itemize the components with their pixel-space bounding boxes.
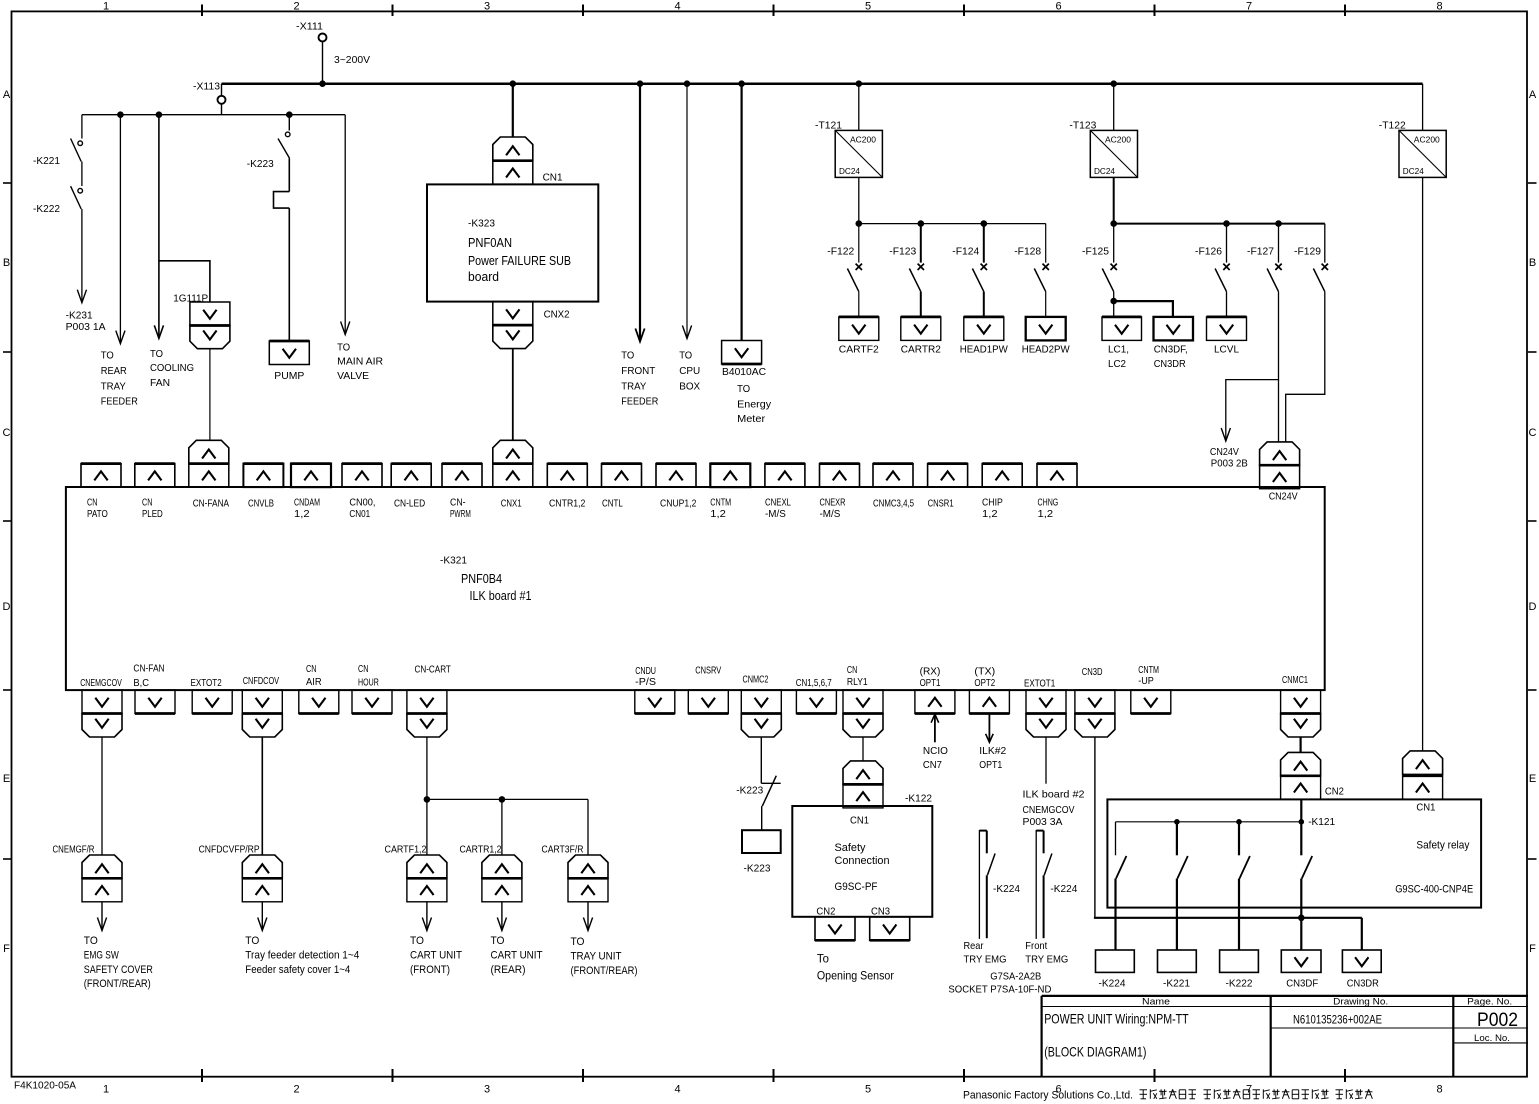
svg-text:-F129: -F129 bbox=[1294, 246, 1321, 258]
svg-text:POWER UNIT Wiring:NPM-TT: POWER UNIT Wiring:NPM-TT bbox=[1044, 1012, 1189, 1027]
svg-text:CN: CN bbox=[358, 663, 368, 675]
arrow TO CART UNIT REAR bbox=[491, 902, 543, 976]
svg-text:D: D bbox=[1529, 601, 1537, 613]
box -K221 bbox=[1158, 950, 1197, 990]
connector CART3F/R bbox=[542, 844, 609, 902]
svg-text:CARTF1,2: CARTF1,2 bbox=[385, 844, 427, 856]
svg-text:1,2: 1,2 bbox=[294, 508, 310, 520]
svg-text:CN01: CN01 bbox=[349, 508, 370, 520]
svg-text:CNEMGF/R: CNEMGF/R bbox=[53, 844, 95, 856]
svg-text:HEAD2PW: HEAD2PW bbox=[1022, 344, 1070, 356]
connector CN3D bbox=[1075, 666, 1115, 737]
wire CNEMGCOV down bbox=[101, 737, 103, 855]
svg-text:EXTOT1: EXTOT1 bbox=[1024, 678, 1055, 690]
svg-text:CNEMGCOV: CNEMGCOV bbox=[1023, 804, 1075, 816]
svg-text:-K223: -K223 bbox=[247, 158, 274, 170]
connector CN3 on K122 bbox=[870, 917, 910, 941]
wire F125 junction to LC1 bbox=[1110, 292, 1117, 317]
svg-text:Front: Front bbox=[1025, 940, 1047, 952]
connector CNTM 1,2 bbox=[710, 464, 750, 521]
connector CN- PWRM bbox=[442, 464, 482, 521]
connector LC1,LC2 bbox=[1102, 317, 1142, 370]
svg-text:NCIO: NCIO bbox=[923, 745, 948, 757]
wire X111 to bus bbox=[322, 42, 324, 84]
wire F123 to CARTR2 bbox=[920, 292, 922, 317]
connector CN1,5,6,7 bbox=[796, 677, 837, 714]
svg-text:(BLOCK DIAGRAM1): (BLOCK DIAGRAM1) bbox=[1044, 1045, 1146, 1060]
svg-text:-K121: -K121 bbox=[1308, 816, 1335, 828]
svg-text:(TX): (TX) bbox=[974, 666, 995, 678]
connector CNMC3,4,5 bbox=[873, 464, 914, 510]
wire TO FRONT TRAY FEEDER bbox=[621, 84, 658, 408]
svg-text:PNF0AN: PNF0AN bbox=[468, 235, 512, 250]
svg-text:Feeder safety cover 1~4: Feeder safety cover 1~4 bbox=[245, 964, 350, 976]
wire CNFDCOV down bbox=[261, 737, 263, 855]
svg-text:2: 2 bbox=[293, 1084, 299, 1096]
arrow TO Tray feeder detection bbox=[245, 902, 359, 976]
connector CARTF1,2 bbox=[385, 844, 447, 902]
connector EXTOT1 bbox=[1024, 678, 1066, 738]
contact K121 pole2 bbox=[1177, 822, 1188, 950]
wire branch bus bbox=[82, 114, 345, 116]
svg-text:CARTR2: CARTR2 bbox=[901, 344, 941, 356]
connector CNEMGCOV bbox=[80, 677, 122, 737]
svg-text:board: board bbox=[468, 269, 499, 284]
title block bbox=[1042, 996, 1528, 1077]
connector CHIP 1,2 bbox=[982, 464, 1022, 521]
connector CN-LED bbox=[391, 464, 431, 510]
terminal -X113 bbox=[193, 81, 226, 115]
svg-text:SOCKET P7SA-10F-ND: SOCKET P7SA-10F-ND bbox=[948, 983, 1051, 995]
wire 1G111P to CN-FANA bbox=[209, 349, 211, 440]
wire K221-K222 bbox=[81, 162, 83, 187]
fuse -F129 bbox=[1294, 224, 1328, 292]
svg-text:CN: CN bbox=[87, 497, 97, 509]
box -K224 bbox=[1096, 950, 1135, 990]
svg-text:CN3DF,: CN3DF, bbox=[1154, 344, 1188, 356]
svg-text:CNVLB: CNVLB bbox=[248, 497, 274, 509]
connector CNX2 on K323 bbox=[493, 302, 570, 349]
connector CHNG 1,2 bbox=[1037, 464, 1077, 521]
label Front TRY EMG bbox=[1025, 940, 1068, 966]
connector CN3DR bbox=[1342, 950, 1381, 990]
svg-text:CN3: CN3 bbox=[871, 906, 890, 918]
coil box -K223 bbox=[742, 830, 781, 874]
svg-text:Rear: Rear bbox=[964, 940, 984, 952]
label Rear TRY EMG bbox=[964, 940, 1007, 966]
wire TO MAIN AIR VALVE bbox=[337, 115, 383, 382]
svg-text:CART3F/R: CART3F/R bbox=[542, 844, 584, 856]
svg-text:MAIN AIR: MAIN AIR bbox=[337, 356, 383, 368]
svg-text:OPT2: OPT2 bbox=[974, 677, 995, 689]
svg-text:TRAY UNIT: TRAY UNIT bbox=[571, 950, 622, 962]
relay -K121 Safety relay G9SC-400-CNP4E bbox=[1107, 799, 1481, 907]
fuse -F127 bbox=[1247, 224, 1282, 292]
svg-text:DC24: DC24 bbox=[1094, 166, 1115, 176]
svg-text:E: E bbox=[3, 773, 10, 785]
svg-text:TO: TO bbox=[679, 350, 692, 362]
transformer -T123 AC200/DC24 bbox=[1069, 119, 1137, 177]
svg-text:Connection: Connection bbox=[835, 855, 890, 867]
svg-text:EMG SW: EMG SW bbox=[84, 949, 119, 961]
svg-text:E: E bbox=[1529, 773, 1536, 785]
svg-text:ILK#2: ILK#2 bbox=[979, 745, 1006, 757]
svg-text:-F125: -F125 bbox=[1082, 246, 1109, 258]
connector CARTR2 bbox=[901, 317, 941, 356]
svg-text:CNEXL: CNEXL bbox=[765, 497, 791, 509]
svg-text:Safety relay: Safety relay bbox=[1416, 840, 1469, 852]
svg-text:AIR: AIR bbox=[306, 676, 322, 688]
wire F128 to HEAD2PW bbox=[1045, 292, 1047, 317]
connector CN3DF bbox=[1281, 950, 1321, 990]
svg-text:F4K1020-05A: F4K1020-05A bbox=[14, 1080, 76, 1092]
connector CN PLED bbox=[135, 464, 175, 521]
svg-text:-X111: -X111 bbox=[296, 21, 323, 33]
svg-text:-F128: -F128 bbox=[1014, 246, 1041, 258]
svg-text:BOX: BOX bbox=[679, 380, 700, 392]
svg-text:CNDAM: CNDAM bbox=[294, 497, 320, 509]
svg-text:G9SC-400-CNP4E: G9SC-400-CNP4E bbox=[1395, 883, 1473, 895]
arrow NCIO CN7 into OPT1 bbox=[923, 714, 948, 771]
svg-text:Safety: Safety bbox=[835, 842, 866, 854]
connector CNEXR -M/S bbox=[820, 464, 860, 521]
connector CNX1 bbox=[493, 440, 533, 509]
wire T123 secondary bus bbox=[1110, 177, 1324, 227]
svg-text:ILK board #1: ILK board #1 bbox=[470, 588, 532, 603]
wire K223 contact to coil bbox=[761, 806, 763, 830]
label To Opening Sensor bbox=[817, 951, 894, 982]
svg-text:-K221: -K221 bbox=[1163, 978, 1190, 990]
svg-text:CNMC2: CNMC2 bbox=[743, 674, 769, 686]
connector CN PATO bbox=[81, 464, 121, 521]
svg-text:Opening Sensor: Opening Sensor bbox=[817, 968, 894, 982]
svg-text:FAN: FAN bbox=[150, 377, 170, 389]
wire CN RLY1 down bbox=[862, 737, 864, 761]
svg-text:-K223: -K223 bbox=[744, 863, 771, 875]
svg-text:(REAR): (REAR) bbox=[491, 964, 526, 976]
svg-text:CN: CN bbox=[142, 497, 152, 509]
svg-text:-K321: -K321 bbox=[440, 554, 467, 566]
svg-text:HEAD1PW: HEAD1PW bbox=[960, 344, 1008, 356]
connector CNEXL -M/S bbox=[765, 464, 805, 521]
wire F129 jog to CN24V bbox=[1286, 292, 1325, 442]
contact -K224 front bbox=[1036, 830, 1077, 939]
wire K223 to pump with interlock notch bbox=[274, 158, 290, 341]
svg-text:To: To bbox=[817, 951, 829, 965]
wire branch to 1G111P bbox=[159, 261, 210, 302]
wire TO CPU BOX bbox=[679, 84, 700, 393]
svg-text:P003 3A: P003 3A bbox=[1023, 816, 1063, 828]
svg-text:1,2: 1,2 bbox=[1038, 508, 1054, 520]
svg-text:-K224: -K224 bbox=[1050, 883, 1077, 895]
svg-text:Meter: Meter bbox=[737, 413, 766, 425]
connector CNVLB bbox=[243, 464, 283, 510]
svg-text:CNMC3,4,5: CNMC3,4,5 bbox=[873, 497, 914, 509]
svg-text:FEEDER: FEEDER bbox=[621, 396, 658, 408]
board -K321 PNF0B4 ILK board #1 bbox=[66, 487, 1325, 690]
svg-text:1,2: 1,2 bbox=[982, 508, 998, 520]
connector CN-FANA bbox=[189, 440, 229, 509]
svg-text:LCVL: LCVL bbox=[1214, 344, 1239, 356]
connector LCVL bbox=[1207, 317, 1247, 356]
node T123 junction bbox=[1110, 80, 1117, 87]
connector CNFDCVFP/RP bbox=[199, 844, 283, 902]
svg-text:-T121: -T121 bbox=[815, 119, 842, 131]
svg-text:-K223: -K223 bbox=[736, 784, 763, 796]
wire K121 linkage bbox=[1116, 819, 1305, 825]
connector CNTL bbox=[602, 464, 642, 510]
wire T122 to safety relay CN1 bbox=[1422, 177, 1424, 751]
svg-text:(FRONT/REAR): (FRONT/REAR) bbox=[84, 978, 151, 990]
svg-text:-X113: -X113 bbox=[193, 81, 220, 93]
svg-text:TO: TO bbox=[150, 348, 163, 360]
svg-text:Name: Name bbox=[1142, 997, 1170, 1008]
svg-text:CNTM: CNTM bbox=[710, 497, 731, 509]
svg-text:CART UNIT: CART UNIT bbox=[491, 949, 543, 961]
svg-text:LC1,: LC1, bbox=[1108, 344, 1129, 356]
arrow TO TRAY UNIT bbox=[571, 902, 638, 977]
svg-text:CARTR1,2: CARTR1,2 bbox=[460, 844, 502, 856]
svg-text:G9SC-PF: G9SC-PF bbox=[835, 881, 878, 893]
svg-text:-K224: -K224 bbox=[1099, 978, 1126, 990]
svg-text:CN: CN bbox=[306, 663, 316, 675]
connector CNMC1 lower pair bbox=[1281, 737, 1344, 800]
svg-text:CN2: CN2 bbox=[1325, 786, 1344, 798]
svg-text:CNSRV: CNSRV bbox=[695, 665, 721, 677]
svg-text:Panasonic Factory Solutions Co: Panasonic Factory Solutions Co.,Ltd. bbox=[963, 1089, 1133, 1101]
svg-text:CN3D: CN3D bbox=[1082, 666, 1103, 678]
svg-text:C: C bbox=[1529, 427, 1537, 439]
svg-text:CNEMGCOV: CNEMGCOV bbox=[80, 677, 122, 689]
node front tray junction bbox=[637, 80, 644, 87]
wire T121 secondary bus bbox=[856, 177, 1046, 227]
connector CARTF2 bbox=[839, 317, 879, 356]
contact K121 pole4 bbox=[1301, 799, 1312, 950]
connector CN RLY1 bbox=[843, 664, 883, 737]
svg-text:6: 6 bbox=[1055, 1, 1061, 13]
wire EXTOT1 to ILK board #2 bbox=[1023, 737, 1085, 828]
svg-text:CN-CART: CN-CART bbox=[415, 664, 452, 676]
svg-text:LC2: LC2 bbox=[1108, 358, 1126, 370]
svg-text:-K222: -K222 bbox=[33, 203, 60, 215]
svg-text:CN3DF: CN3DF bbox=[1286, 978, 1318, 990]
svg-text:1G111P: 1G111P bbox=[173, 293, 208, 305]
arrow TO CART UNIT FRONT bbox=[410, 902, 462, 976]
switch -K223 NC contact bbox=[736, 776, 780, 806]
svg-text:CN-FAN: CN-FAN bbox=[133, 663, 164, 675]
wire to -K231 with arrow bbox=[66, 209, 106, 333]
switch -K222 bbox=[33, 186, 82, 215]
svg-text:CN24V: CN24V bbox=[1210, 446, 1239, 458]
svg-text:G7SA-2A2B: G7SA-2A2B bbox=[990, 971, 1041, 983]
svg-text:CN1: CN1 bbox=[1416, 802, 1435, 814]
svg-text:-P/S: -P/S bbox=[635, 676, 656, 688]
svg-text:4: 4 bbox=[674, 1084, 680, 1096]
wire CNMC2 down bbox=[760, 737, 762, 783]
label G7SA-2A2B socket bbox=[948, 971, 1051, 996]
fuse -F128 bbox=[1014, 224, 1049, 292]
svg-text:-K222: -K222 bbox=[1226, 978, 1253, 990]
svg-text:(FRONT): (FRONT) bbox=[410, 964, 450, 976]
svg-text:CNMC1: CNMC1 bbox=[1282, 674, 1308, 686]
svg-text:CN1: CN1 bbox=[543, 172, 563, 184]
connector CNMC1 bbox=[1281, 674, 1321, 737]
svg-text:Power FAILURE SUB: Power FAILURE SUB bbox=[468, 253, 571, 268]
svg-text:TRAY: TRAY bbox=[621, 380, 646, 392]
svg-text:P003 2B: P003 2B bbox=[1211, 458, 1248, 470]
svg-text:CNTR1,2: CNTR1,2 bbox=[549, 497, 586, 509]
connector CNEMGF/R bbox=[53, 844, 123, 902]
svg-text:F: F bbox=[3, 943, 10, 955]
svg-text:-T123: -T123 bbox=[1069, 119, 1096, 131]
svg-text:A: A bbox=[3, 89, 11, 101]
svg-text:-M/S: -M/S bbox=[820, 508, 841, 520]
svg-text:1,2: 1,2 bbox=[710, 508, 726, 520]
contact K121 pole1 bbox=[1116, 822, 1127, 950]
svg-text:-F123: -F123 bbox=[889, 246, 916, 258]
connector CN2 on K122 bbox=[815, 917, 855, 941]
svg-text:C: C bbox=[3, 427, 11, 439]
board -K122 Safety Connection G9SC-PF bbox=[792, 793, 932, 918]
svg-text:TO: TO bbox=[737, 383, 750, 395]
svg-text:CN2: CN2 bbox=[816, 906, 835, 918]
svg-text:2: 2 bbox=[293, 1, 299, 13]
wire main AC bus bbox=[222, 82, 1423, 85]
wire F122 to CARTF2 bbox=[858, 292, 860, 317]
svg-text:CNUP1,2: CNUP1,2 bbox=[660, 497, 697, 509]
node cooling fan junction bbox=[156, 111, 163, 118]
arrow TO EMG SW SAFETY COVER bbox=[84, 902, 153, 990]
node X111 junction bbox=[319, 80, 326, 87]
node rear tray junction bbox=[117, 111, 124, 118]
svg-text:HOUR: HOUR bbox=[358, 677, 379, 689]
svg-text:-F124: -F124 bbox=[952, 246, 979, 258]
wire CN3D bus bbox=[1094, 737, 1362, 950]
svg-text:TO: TO bbox=[337, 341, 350, 353]
svg-text:D: D bbox=[3, 601, 11, 613]
svg-text:3: 3 bbox=[484, 1, 490, 13]
svg-text:CN1: CN1 bbox=[850, 814, 869, 826]
connector HEAD1PW bbox=[960, 317, 1008, 356]
connector EXTOT2 bbox=[191, 677, 233, 714]
svg-text:DC24: DC24 bbox=[839, 166, 860, 176]
svg-text:CNFDCOV: CNFDCOV bbox=[243, 675, 279, 687]
svg-text:CPU: CPU bbox=[679, 365, 700, 377]
transformer -T122 AC200/DC24 bbox=[1379, 84, 1446, 178]
wire bus to CN1 bbox=[512, 84, 514, 137]
svg-text:CN3DR: CN3DR bbox=[1154, 358, 1186, 370]
svg-text:ILK board #2: ILK board #2 bbox=[1023, 789, 1085, 801]
switch -K221 bbox=[33, 115, 82, 167]
wire F124 to HEAD1PW bbox=[983, 292, 985, 317]
node CN1 junction bbox=[510, 80, 517, 87]
svg-text:-K122: -K122 bbox=[905, 793, 932, 805]
node B4010AC junction bbox=[738, 80, 745, 87]
svg-text:CN-LED: CN-LED bbox=[394, 497, 426, 509]
svg-text:F: F bbox=[1529, 943, 1536, 955]
svg-text:TO: TO bbox=[410, 935, 424, 947]
svg-text:TO: TO bbox=[491, 935, 505, 947]
svg-text:TRY EMG: TRY EMG bbox=[964, 954, 1007, 966]
svg-text:OPT1: OPT1 bbox=[920, 677, 941, 689]
svg-text:CN3DR: CN3DR bbox=[1347, 978, 1379, 990]
svg-text:CNEXR: CNEXR bbox=[820, 497, 846, 509]
svg-text:A: A bbox=[1529, 89, 1537, 101]
label Panasonic Factory Solutions bbox=[963, 1089, 1372, 1101]
connector (RX) OPT1 bbox=[915, 666, 955, 714]
svg-text:B4010AC: B4010AC bbox=[722, 366, 766, 378]
arrow ILK#2 OPT1 from OPT2 bbox=[979, 714, 1006, 772]
fuse -F122 bbox=[827, 224, 862, 292]
svg-text:1: 1 bbox=[103, 1, 109, 13]
svg-text:Tray feeder detection 1~4: Tray feeder detection 1~4 bbox=[245, 949, 359, 961]
connector B4010AC bbox=[722, 341, 772, 426]
contact -K224 rear bbox=[979, 830, 1020, 939]
svg-text:-F126: -F126 bbox=[1195, 246, 1222, 258]
svg-text:-K224: -K224 bbox=[993, 883, 1020, 895]
box -K222 bbox=[1220, 950, 1259, 990]
node T121 junction bbox=[856, 80, 863, 87]
svg-text:CN: CN bbox=[847, 664, 857, 676]
svg-text:AC200: AC200 bbox=[1414, 135, 1440, 145]
connector CNUP1,2 bbox=[656, 464, 697, 510]
terminal -X111 bbox=[296, 21, 327, 42]
svg-text:3: 3 bbox=[484, 1084, 490, 1096]
svg-text:AC200: AC200 bbox=[850, 135, 876, 145]
svg-text:CNX1: CNX1 bbox=[501, 497, 522, 509]
wire bus to T123 bbox=[1113, 84, 1115, 131]
svg-text:CNTL: CNTL bbox=[602, 497, 623, 509]
svg-text:DC24: DC24 bbox=[1403, 166, 1424, 176]
svg-text:TO: TO bbox=[571, 936, 585, 948]
wire TO COOLING FAN bbox=[150, 115, 194, 390]
svg-text:1: 1 bbox=[103, 1084, 109, 1096]
svg-text:CN7: CN7 bbox=[923, 759, 942, 771]
wire branch CN24V P003 arrow bbox=[1210, 380, 1279, 470]
connector CN-CART bbox=[407, 664, 451, 737]
connector CN HOUR bbox=[352, 663, 392, 714]
contact K121 pole3 bbox=[1239, 822, 1250, 950]
svg-text:AC200: AC200 bbox=[1105, 135, 1131, 145]
svg-text:FRONT: FRONT bbox=[621, 365, 656, 377]
svg-text:TRAY: TRAY bbox=[101, 380, 126, 392]
connector CN00, CN01 bbox=[342, 464, 382, 521]
svg-text:8: 8 bbox=[1436, 1, 1442, 13]
wire bus to T121 bbox=[858, 84, 860, 131]
svg-text:CHNG: CHNG bbox=[1038, 497, 1059, 509]
svg-text:EXTOT2: EXTOT2 bbox=[191, 677, 222, 689]
svg-text:PUMP: PUMP bbox=[274, 370, 304, 382]
connector CN-FAN B,C bbox=[133, 663, 175, 714]
svg-text:P003 1A: P003 1A bbox=[66, 321, 106, 333]
svg-text:CART UNIT: CART UNIT bbox=[410, 949, 462, 961]
svg-text:(RX): (RX) bbox=[920, 666, 941, 678]
svg-text:-K323: -K323 bbox=[468, 218, 495, 230]
connector CN1 on safety relay bbox=[1403, 751, 1443, 814]
svg-text:B,C: B,C bbox=[133, 677, 149, 689]
svg-text:-UP: -UP bbox=[1138, 675, 1154, 687]
connector CNFDCOV bbox=[242, 675, 282, 737]
svg-text:5: 5 bbox=[865, 1084, 871, 1096]
connector CN24V on board top bbox=[1260, 442, 1300, 503]
svg-text:PWRM: PWRM bbox=[450, 508, 471, 520]
svg-text:B: B bbox=[1529, 257, 1536, 269]
wire F127 to CN24V bbox=[1278, 292, 1280, 442]
svg-text:CN1,5,6,7: CN1,5,6,7 bbox=[796, 677, 832, 689]
wire F125 to CN3DF branch bbox=[1114, 301, 1173, 317]
connector CN3DF,CN3DR bbox=[1154, 317, 1194, 370]
wire TO REAR TRAY FEEDER bbox=[101, 115, 138, 408]
